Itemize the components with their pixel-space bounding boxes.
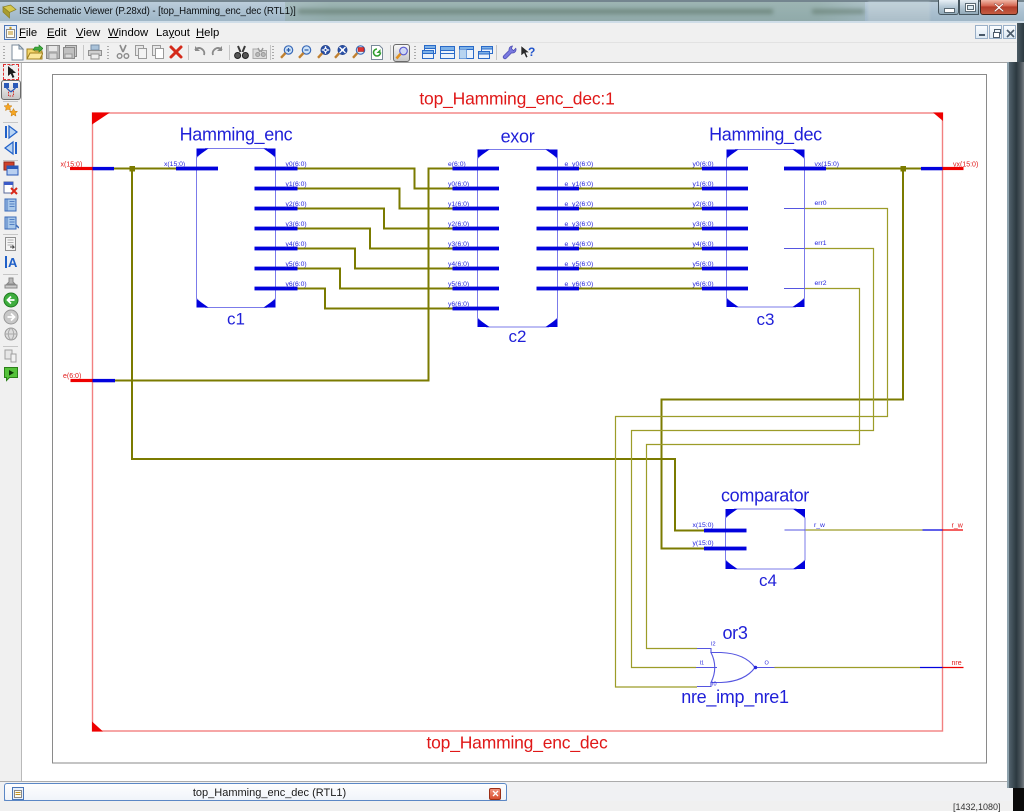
page with arrow xyxy=(3,236,19,252)
svg-text:e_y3(6:0): e_y3(6:0) xyxy=(565,221,594,228)
wire: c1.y2 to c2.y2 xyxy=(298,209,453,229)
pin c1 y5(6:0) xyxy=(255,267,298,271)
port r_w xyxy=(923,523,964,531)
svg-text:nre: nre xyxy=(952,660,962,667)
svg-text:y2(6:0): y2(6:0) xyxy=(448,221,469,228)
svg-text:y5(6:0): y5(6:0) xyxy=(693,261,714,268)
pin c2 e_y6(6:0) xyxy=(537,287,580,291)
wire: c1.y6 to c2.y6 xyxy=(298,289,453,309)
select tool (red dashed) xyxy=(3,64,19,80)
pin c2 e_y1(6:0) xyxy=(537,187,580,191)
svg-text:e(6:0): e(6:0) xyxy=(448,161,466,168)
pin c1 x(15:0) xyxy=(176,167,218,171)
svg-text:r_w: r_w xyxy=(952,523,964,530)
svg-text:A: A xyxy=(8,255,18,270)
svg-text:y3(6:0): y3(6:0) xyxy=(693,221,714,228)
svg-text:y4(6:0): y4(6:0) xyxy=(693,241,714,248)
svg-text:e_y4(6:0): e_y4(6:0) xyxy=(565,241,594,248)
wire: c2.e_y6 to c3.y6 xyxy=(579,288,702,290)
pin c2 e_y2(6:0) xyxy=(537,207,580,211)
svg-text:c1: c1 xyxy=(227,310,245,329)
forward gray xyxy=(3,309,19,325)
pin c2 y3(6:0) xyxy=(453,247,500,251)
svg-text:e_y6(6:0): e_y6(6:0) xyxy=(565,281,594,288)
wire: c2.e_y5 to c3.y5 xyxy=(579,268,702,270)
back green xyxy=(3,292,19,308)
pin c1 y6(6:0) xyxy=(255,287,298,291)
svg-text:y0(6:0): y0(6:0) xyxy=(693,161,714,168)
pin c3 y3(6:0) xyxy=(702,227,748,231)
svg-text:y(15:0): y(15:0) xyxy=(693,540,714,547)
pin c3 y0(6:0) xyxy=(702,167,748,171)
pin c3 y1(6:0) xyxy=(702,187,748,191)
wire: x port to c1 xyxy=(114,168,176,170)
svg-text:y2(6:0): y2(6:0) xyxy=(286,201,307,208)
notebook 1 xyxy=(3,197,19,213)
module corner marker top-left xyxy=(92,113,110,125)
globe gray xyxy=(3,326,19,342)
stars icon xyxy=(3,102,19,118)
svg-text:y1(6:0): y1(6:0) xyxy=(693,181,714,188)
schematic tool pressed xyxy=(1,80,21,100)
svg-text:top_Hamming_enc_dec:1: top_Hamming_enc_dec:1 xyxy=(419,89,614,110)
wire: c1.y4 to c2.y4 xyxy=(298,249,453,269)
svg-text:y4(6:0): y4(6:0) xyxy=(286,241,307,248)
wire: x bus down to comparator c4 x input xyxy=(132,169,704,531)
wire: or3 output O to nre port xyxy=(775,667,921,669)
svg-text:nre_imp_nre1: nre_imp_nre1 xyxy=(681,687,789,708)
wire: e port up to c2 e input xyxy=(115,169,453,381)
wire: err1 from c3 to or3 input I1 xyxy=(632,249,874,668)
svg-text:?: ? xyxy=(528,45,535,59)
pin c2 y6(6:0) xyxy=(453,307,500,311)
component c2 exor xyxy=(478,150,558,328)
pin c4 y(15:0) xyxy=(704,547,747,551)
svg-text:err0: err0 xyxy=(815,200,827,207)
svg-text:I0: I0 xyxy=(712,682,717,688)
node: junction on vx wire xyxy=(901,166,907,172)
pin c1 y1(6:0) xyxy=(255,187,298,191)
svg-text:y3(6:0): y3(6:0) xyxy=(286,221,307,228)
svg-text:c4: c4 xyxy=(759,571,777,590)
pin c2 y0(6:0) xyxy=(453,187,500,191)
svg-text:y1(6:0): y1(6:0) xyxy=(286,181,307,188)
wire: c4.r_w to r_w port xyxy=(805,529,923,531)
play left xyxy=(3,140,19,156)
wire: c1.y3 to c2.y3 xyxy=(298,229,453,249)
pin c1 y0(6:0) xyxy=(255,167,298,171)
svg-text:y5(6:0): y5(6:0) xyxy=(286,261,307,268)
port vx(15:0) xyxy=(921,162,978,171)
pin c3 err0 xyxy=(784,208,805,210)
wire: c1.y5 to c2.y5 xyxy=(298,269,453,289)
svg-text:y0(6:0): y0(6:0) xyxy=(286,161,307,168)
svg-text:e(6:0): e(6:0) xyxy=(63,373,81,380)
pin c2 e_y3(6:0) xyxy=(537,227,580,231)
svg-text:comparator: comparator xyxy=(721,486,809,506)
wire: c2.e_y0 to c3.y0 xyxy=(579,168,702,170)
wire: c2.e_y3 to c3.y3 xyxy=(579,228,702,230)
wire: err0 from c3 to or3 input I0 xyxy=(616,209,888,688)
svg-text:y6(6:0): y6(6:0) xyxy=(448,301,469,308)
pin c3 y4(6:0) xyxy=(702,247,748,251)
svg-text:vx(15:0): vx(15:0) xyxy=(815,161,840,168)
svg-text:e_y1(6:0): e_y1(6:0) xyxy=(565,181,594,188)
pin c2 e_y4(6:0) xyxy=(537,247,580,251)
node: junction on x wire xyxy=(130,166,136,172)
MDI child buttons xyxy=(975,25,988,39)
wire: c2.e_y2 to c3.y2 xyxy=(579,208,702,210)
svg-text:y5(6:0): y5(6:0) xyxy=(448,281,469,288)
play right xyxy=(3,124,19,140)
wire: err2 from c3 to or3 input I2 xyxy=(647,289,860,649)
module boundary top_Hamming_enc_dec xyxy=(93,113,943,731)
pin c1 y2(6:0) xyxy=(255,207,298,211)
pin c2 e(6:0) xyxy=(453,167,500,171)
stamp xyxy=(3,276,19,292)
component c1 Hamming_enc xyxy=(197,149,276,308)
svg-text:Hamming_enc: Hamming_enc xyxy=(180,125,293,146)
svg-text:I1: I1 xyxy=(700,661,705,667)
svg-text:y6(6:0): y6(6:0) xyxy=(693,281,714,288)
pin c3 y2(6:0) xyxy=(702,207,748,211)
svg-text:c3: c3 xyxy=(757,310,775,329)
pin c4 x(15:0) xyxy=(704,529,747,533)
pin c1 y4(6:0) xyxy=(255,247,298,251)
window red xyxy=(3,161,19,177)
pages gray xyxy=(3,348,19,364)
svg-text:x(15:0): x(15:0) xyxy=(164,161,185,168)
wire: c1.y1 to c2.y1 xyxy=(298,189,453,209)
svg-text:I2: I2 xyxy=(711,642,716,648)
svg-text:e_y0(6:0): e_y0(6:0) xyxy=(565,161,594,168)
svg-text:y1(6:0): y1(6:0) xyxy=(448,201,469,208)
pin c2 e_y0(6:0) xyxy=(537,167,580,171)
black corner of background window xyxy=(1013,788,1024,811)
or-gate U nre_imp_nre1 xyxy=(696,649,775,687)
svg-text:e_y2(6:0): e_y2(6:0) xyxy=(565,201,594,208)
pin c3 err2 xyxy=(784,288,805,290)
pin c2 e_y5(6:0) xyxy=(537,267,580,271)
svg-text:r_w: r_w xyxy=(814,522,825,529)
svg-text:y6(6:0): y6(6:0) xyxy=(286,281,307,288)
module corner marker top-right xyxy=(933,113,943,122)
wire: c2.e_y1 to c3.y1 xyxy=(579,188,702,190)
notebook 2 xyxy=(3,215,19,231)
green playback bubble xyxy=(3,366,19,382)
component c3 Hamming_dec xyxy=(727,150,805,308)
svg-text:c2: c2 xyxy=(509,327,527,346)
wire: c1.y0 to c2.y0 xyxy=(298,169,453,189)
svg-text:y0(6:0): y0(6:0) xyxy=(448,181,469,188)
pin c2 y1(6:0) xyxy=(453,207,500,211)
svg-text:y2(6:0): y2(6:0) xyxy=(693,201,714,208)
svg-text:top_Hamming_enc_dec: top_Hamming_enc_dec xyxy=(426,733,607,754)
module corner marker bottom-left xyxy=(92,722,103,732)
pin c2 y2(6:0) xyxy=(453,227,500,231)
svg-text:x(15:0): x(15:0) xyxy=(61,162,83,169)
svg-text:or3: or3 xyxy=(722,623,747,643)
pin c3 y5(6:0) xyxy=(702,267,748,271)
port e(6:0) xyxy=(63,373,115,382)
pin c3 err1 xyxy=(784,248,805,250)
pin c4 r_w xyxy=(785,529,806,531)
text A tool xyxy=(3,254,19,270)
svg-text:err2: err2 xyxy=(815,280,827,287)
svg-text:x(15:0): x(15:0) xyxy=(693,522,714,529)
pin c2 y4(6:0) xyxy=(453,267,500,271)
window delete xyxy=(3,181,19,197)
wire: vx junction down to c4 y input xyxy=(662,169,904,549)
svg-text:err1: err1 xyxy=(815,240,827,247)
svg-text:y3(6:0): y3(6:0) xyxy=(448,241,469,248)
svg-text:O: O xyxy=(765,661,770,667)
svg-text:Hamming_dec: Hamming_dec xyxy=(709,125,822,146)
svg-text:exor: exor xyxy=(501,127,535,147)
pin c3 vx(15:0) xyxy=(784,167,826,171)
port x(15:0) xyxy=(61,162,115,171)
window buttons xyxy=(938,0,959,15)
pin c2 y5(6:0) xyxy=(453,287,500,291)
svg-text:y4(6:0): y4(6:0) xyxy=(448,261,469,268)
wire: c3.vx to vx port xyxy=(826,168,921,170)
pin c3 y6(6:0) xyxy=(702,287,748,291)
dark edge next to MDI buttons xyxy=(1017,23,1024,62)
component c4 comparator xyxy=(726,509,806,569)
svg-text:e_y5(6:0): e_y5(6:0) xyxy=(565,261,594,268)
wire: c2.e_y4 to c3.y4 xyxy=(579,248,702,250)
port nre xyxy=(920,660,964,668)
pin c1 y3(6:0) xyxy=(255,227,298,231)
sheet border xyxy=(53,75,987,764)
svg-text:vx(15:0): vx(15:0) xyxy=(953,162,978,169)
